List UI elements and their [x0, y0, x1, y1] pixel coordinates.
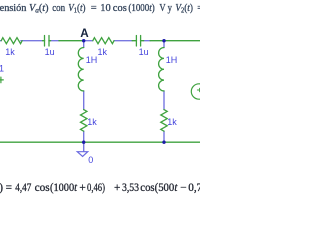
- svg-text:1k: 1k: [98, 47, 108, 57]
- svg-text:cos: cos: [35, 182, 50, 194]
- svg-text:V y: V y: [159, 3, 172, 14]
- svg-text:1u: 1u: [45, 47, 55, 57]
- svg-text:V2(t): V2(t): [175, 3, 193, 15]
- svg-text:ensión Va(t): ensión Va(t): [0, 3, 49, 15]
- svg-text:con: con: [52, 3, 66, 14]
- svg-text:1u: 1u: [139, 47, 149, 57]
- svg-text:0,7: 0,7: [188, 182, 200, 194]
- svg-text:1k: 1k: [87, 117, 97, 127]
- svg-text:(1000t: (1000t: [50, 182, 78, 194]
- svg-text:=: =: [91, 3, 97, 14]
- svg-text:(1000t): (1000t): [128, 3, 155, 14]
- svg-text:): ): [0, 182, 3, 194]
- svg-text:3,53: 3,53: [122, 182, 139, 194]
- svg-text:V1: V1: [0, 63, 4, 73]
- svg-text:1H: 1H: [86, 55, 98, 65]
- svg-text:V1(t): V1(t): [68, 3, 86, 15]
- svg-text:=: =: [197, 3, 200, 14]
- svg-text:1k: 1k: [167, 117, 177, 127]
- svg-text:−: −: [180, 182, 186, 194]
- svg-text:=: =: [6, 182, 12, 194]
- svg-text:A: A: [80, 27, 89, 40]
- svg-text:1H: 1H: [166, 55, 178, 65]
- svg-text:0,46): 0,46): [87, 182, 105, 194]
- svg-text:10: 10: [100, 3, 111, 14]
- svg-text:4,47: 4,47: [15, 182, 31, 194]
- svg-text:0: 0: [88, 155, 93, 165]
- svg-text:+: +: [114, 182, 120, 194]
- svg-text:cos: cos: [113, 3, 127, 14]
- svg-text:1k: 1k: [5, 47, 15, 57]
- svg-text:cos(500t: cos(500t: [140, 182, 178, 194]
- svg-text:+: +: [79, 182, 85, 194]
